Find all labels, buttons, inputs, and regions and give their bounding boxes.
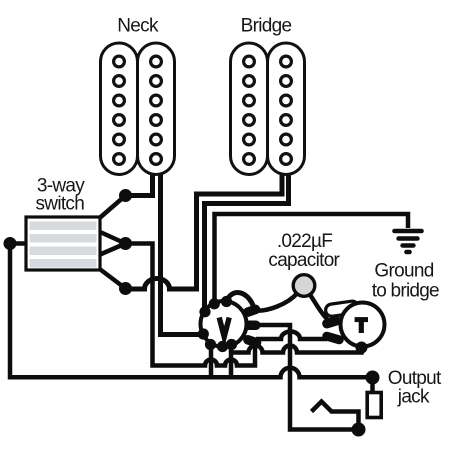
svg-text:Bridge: Bridge xyxy=(241,15,292,36)
svg-text:to bridge: to bridge xyxy=(372,281,439,302)
svg-text:Neck: Neck xyxy=(117,15,159,36)
svg-text:capacitor: capacitor xyxy=(268,250,340,271)
svg-text:switch: switch xyxy=(36,193,85,214)
svg-text:Ground: Ground xyxy=(374,260,433,281)
svg-text:.022µF: .022µF xyxy=(277,231,332,252)
svg-text:Output: Output xyxy=(388,368,442,389)
svg-text:jack: jack xyxy=(397,387,430,408)
